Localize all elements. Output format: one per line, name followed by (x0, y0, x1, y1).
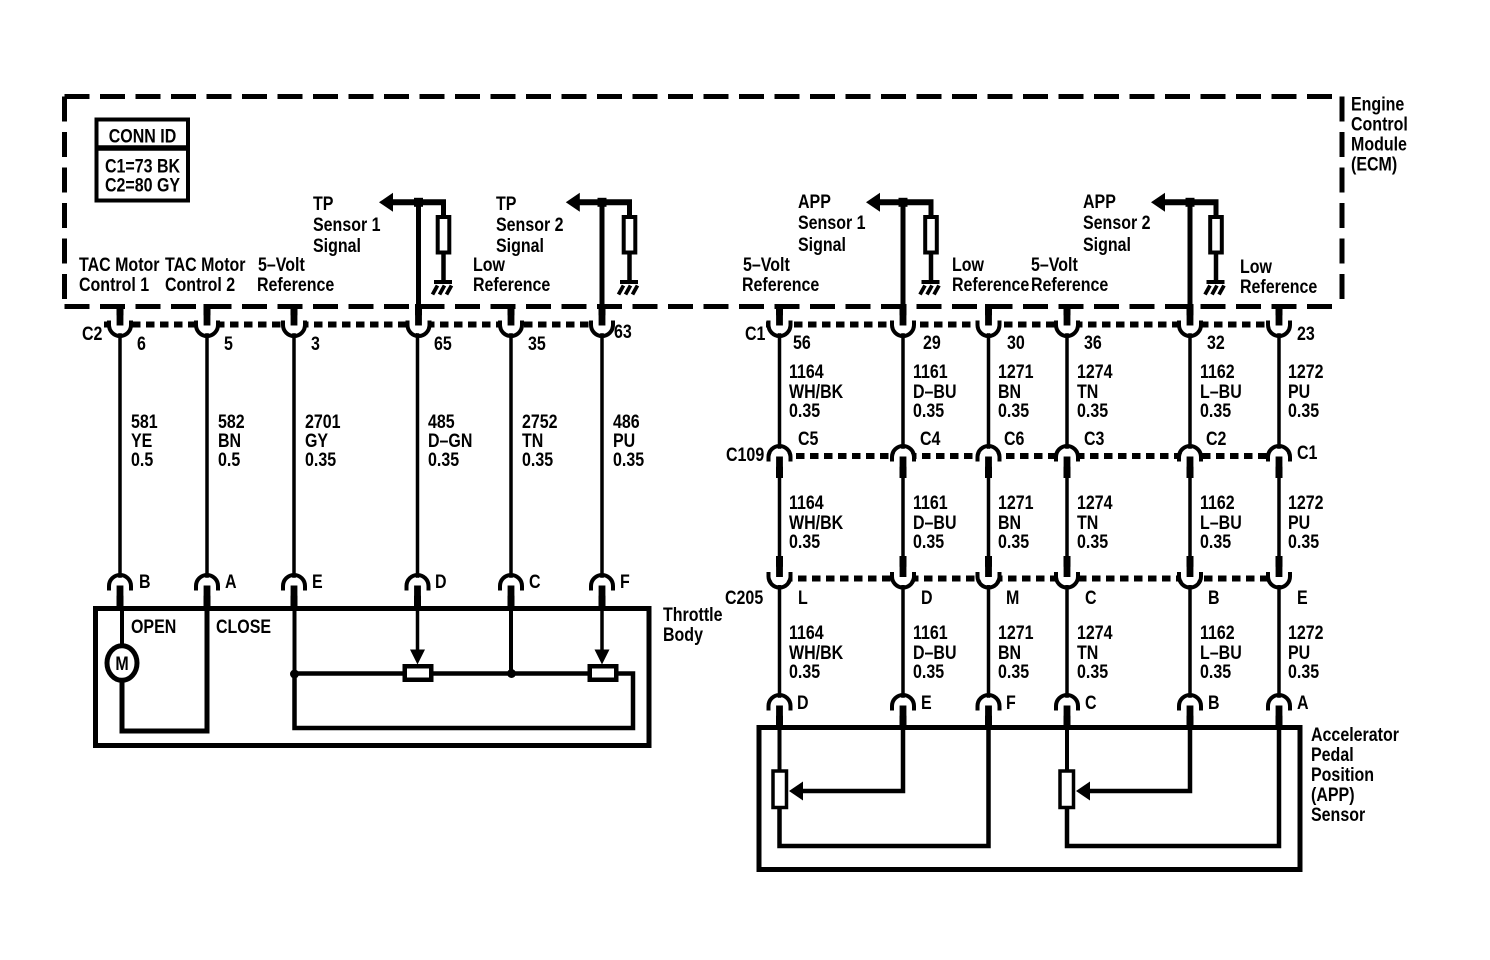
stub into throttle body pin A (204, 586, 211, 610)
connector throttle body pin E (283, 575, 305, 599)
connector C2 pin 6 (109, 312, 131, 336)
APP sensor box (759, 728, 1300, 870)
stub above C205 (900, 556, 907, 578)
svg-text:C6: C6 (1004, 428, 1025, 450)
stub into APP pin C (1064, 706, 1071, 729)
svg-text:Control 2: Control 2 (165, 274, 235, 296)
ECM pin stub C2-5 (204, 304, 211, 325)
value 1274 TN 0.35 (c) (1077, 622, 1113, 683)
junction TP1 (414, 198, 423, 207)
connector C109 pin C3 (1056, 446, 1078, 470)
svg-text:(ECM): (ECM) (1351, 153, 1397, 175)
value 582 BN 0.5 (218, 411, 245, 471)
stub above C205 (985, 556, 992, 578)
connector C1 pin 29 (892, 312, 914, 336)
CONN ID table (97, 120, 189, 201)
label Engine Control Module (ECM) (1351, 93, 1408, 175)
label Accelerator Pedal Position (APP) Sensor (1311, 724, 1399, 826)
wire 1271 segment b (C109 to C205-M) (987, 474, 991, 558)
connector C205 pin D (892, 564, 914, 588)
wire pin 65 vertical (416, 202, 421, 306)
svg-text:1162: 1162 (1200, 492, 1235, 514)
ECM module dashed box (65, 97, 1343, 307)
svg-text:0.35: 0.35 (913, 400, 944, 422)
stub into throttle body pin E (291, 586, 298, 610)
value 1271 BN 0.35 (a) (998, 361, 1034, 422)
svg-text:Signal: Signal (798, 234, 846, 256)
svg-text:36: 36 (1084, 332, 1102, 354)
connector C1 pin 30 (978, 312, 1000, 336)
value 1164 WH/BK 0.35 (a) (789, 361, 843, 422)
value 1272 PU 0.35 (b) (1288, 492, 1324, 553)
svg-text:1164: 1164 (789, 361, 824, 383)
svg-text:Reference: Reference (1031, 274, 1108, 296)
svg-text:Body: Body (663, 624, 703, 646)
svg-text:1274: 1274 (1077, 361, 1113, 383)
svg-text:Sensor 1: Sensor 1 (798, 212, 866, 234)
svg-text:1272: 1272 (1288, 492, 1324, 514)
svg-text:C1: C1 (745, 323, 766, 345)
svg-text:Reference: Reference (952, 274, 1029, 296)
wire 582 BN (C2-5 to throttle A) (205, 333, 209, 578)
label TAC Motor Control 2 (165, 254, 246, 296)
svg-text:1274: 1274 (1077, 622, 1113, 644)
wire 1164 segment b (C109 to C205-L) (778, 474, 782, 558)
wire E into pot element (293, 609, 297, 678)
svg-text:1274: 1274 (1077, 492, 1113, 514)
svg-text:Module: Module (1351, 133, 1407, 155)
svg-text:Signal: Signal (313, 235, 361, 257)
connector C109 pin C2 (1179, 446, 1201, 470)
svg-text:1161: 1161 (913, 492, 948, 514)
stub above C205 (1187, 556, 1194, 578)
svg-text:C2=80 GY: C2=80 GY (105, 174, 180, 196)
wire 1271 segment a (C1-30 to C109-C6) (987, 333, 991, 450)
svg-text:F: F (1006, 692, 1016, 714)
label Low Reference (APP1) (952, 254, 1029, 296)
svg-text:0.35: 0.35 (998, 531, 1029, 553)
svg-text:56: 56 (793, 332, 811, 354)
svg-text:0.35: 0.35 (1288, 661, 1319, 683)
svg-text:C: C (1085, 587, 1097, 609)
wire 1161 segment a (C1-29 to C109-C4) (901, 333, 905, 450)
value 1164 WH/BK 0.35 (c) (789, 622, 843, 683)
wiper arrow F (600, 609, 604, 650)
svg-text:0.35: 0.35 (789, 400, 820, 422)
wire motor to A (return) (122, 609, 207, 731)
connector APP pin C (1056, 695, 1078, 719)
wire APP sensor 2 signal arrow (1151, 193, 1165, 212)
stub into throttle body pin D (414, 586, 421, 610)
svg-text:C1: C1 (1297, 442, 1318, 464)
svg-text:E: E (921, 692, 932, 714)
stub into throttle body pin F (599, 586, 606, 610)
connector throttle body pin A (196, 575, 218, 599)
wire 1164 segment a (C1-56 to C109-C5) (778, 333, 782, 450)
label 5-Volt Reference (APP2) (1031, 254, 1108, 296)
wire 1274 segment a (C1-36 to C109-C3) (1065, 333, 1069, 450)
value 1274 TN 0.35 (b) (1077, 492, 1113, 553)
connector C109 pin C1 (1268, 446, 1290, 470)
wire 1272 segment a (C1-23 to C109-C1) (1277, 333, 1281, 450)
value 2752 TN 0.35 (522, 411, 558, 471)
svg-text:Sensor 2: Sensor 2 (1083, 212, 1151, 234)
svg-text:1164: 1164 (789, 492, 824, 514)
wire 1162 segment b (C109 to C205-B) (1188, 474, 1192, 558)
svg-text:C3: C3 (1084, 428, 1105, 450)
svg-text:Low: Low (952, 254, 984, 276)
connector APP pin A (1268, 695, 1290, 719)
svg-text:Position: Position (1311, 764, 1374, 786)
connector C205 pin E (1268, 564, 1290, 588)
stub below C109 (985, 457, 992, 478)
svg-text:63: 63 (614, 321, 632, 343)
TP sensor 1 element (405, 666, 432, 680)
junction APP2 (1186, 198, 1195, 207)
svg-text:TP: TP (496, 193, 517, 215)
resistor TP1 pull-up (441, 200, 446, 217)
svg-text:Signal: Signal (1083, 234, 1131, 256)
wire pot1 bottom loop to F (780, 728, 989, 846)
ECM pin stub C1-56 (776, 304, 783, 325)
wire 1162 segment c (C205 to APP B) (1188, 585, 1192, 699)
svg-text:A: A (225, 571, 237, 593)
stub below C109 (776, 457, 783, 478)
stub into APP pin B (1187, 706, 1194, 729)
svg-text:Low: Low (1240, 256, 1272, 278)
svg-text:1161: 1161 (913, 361, 948, 383)
wire D to pot1 top (778, 728, 782, 770)
connector body line C205 (dotted) (770, 576, 1291, 582)
svg-text:B: B (139, 571, 151, 593)
svg-text:5–Volt: 5–Volt (743, 254, 790, 276)
stub into APP pin F (985, 706, 992, 729)
connector APP pin B (1179, 695, 1201, 719)
wire 581 YE (C2-6 to throttle B) (118, 333, 122, 578)
svg-text:D: D (921, 587, 933, 609)
svg-text:1164: 1164 (789, 622, 824, 644)
svg-text:Throttle: Throttle (663, 604, 723, 626)
value 1161 D-BU 0.35 (c) (913, 622, 957, 683)
svg-text:C: C (1085, 692, 1097, 714)
stub below C109 (1064, 457, 1071, 478)
svg-text:C: C (529, 571, 541, 593)
svg-text:CLOSE: CLOSE (216, 616, 271, 638)
connector C109 pin C4 (892, 446, 914, 470)
svg-text:CONN ID: CONN ID (109, 125, 177, 147)
stub into APP pin A (1276, 706, 1283, 729)
svg-text:TAC Motor: TAC Motor (165, 254, 246, 276)
svg-text:6: 6 (137, 333, 146, 355)
svg-text:Control: Control (1351, 113, 1408, 135)
stub above C205 (776, 556, 783, 578)
svg-text:0.35: 0.35 (789, 531, 820, 553)
connector C205 pin B (1179, 564, 1201, 588)
wire B to motor (120, 609, 124, 646)
TP sensor 2 element (590, 666, 617, 680)
label TAC Motor Control 1 (79, 254, 160, 296)
label Low Reference (APP2) (1240, 256, 1317, 298)
svg-text:1272: 1272 (1288, 361, 1324, 383)
value 1162 L-BU 0.35 (b) (1200, 492, 1242, 553)
wire 486 PU (C2-63 to throttle F) (600, 333, 604, 578)
svg-text:C4: C4 (920, 428, 941, 450)
svg-text:OPEN: OPEN (131, 616, 176, 638)
svg-text:APP: APP (1083, 191, 1116, 213)
svg-text:C109: C109 (726, 444, 764, 466)
wire 1274 segment c (C205 to APP C) (1065, 585, 1069, 699)
wire C down (509, 609, 513, 673)
wiper APP2 (wire B) (1090, 728, 1190, 791)
svg-text:0.35: 0.35 (1288, 400, 1319, 422)
label 5-Volt Reference (TB) (257, 254, 334, 296)
svg-text:29: 29 (923, 332, 941, 354)
value 2701 GY 0.35 (305, 411, 341, 471)
svg-text:TP: TP (313, 193, 334, 215)
value 1272 PU 0.35 (c) (1288, 622, 1324, 683)
svg-text:0.35: 0.35 (1200, 531, 1231, 553)
svg-text:E: E (1297, 587, 1308, 609)
connector APP pin E (892, 695, 914, 719)
svg-text:Reference: Reference (1240, 276, 1317, 298)
svg-text:1161: 1161 (913, 622, 948, 644)
wire pin 29 vertical (901, 202, 906, 306)
junction C node (507, 669, 516, 678)
svg-text:3: 3 (311, 333, 320, 355)
svg-text:C5: C5 (798, 428, 819, 450)
svg-text:1272: 1272 (1288, 622, 1324, 644)
ground TP2 (619, 280, 639, 295)
svg-text:B: B (1208, 692, 1220, 714)
connector APP pin F (978, 695, 1000, 719)
APP sensor 1 element (773, 771, 787, 808)
APP sensor 2 element (1060, 771, 1074, 808)
connector C2 pin 3 (283, 312, 305, 336)
junction APP1 (899, 198, 908, 207)
wire 1271 segment c (C205 to APP F) (987, 585, 991, 699)
svg-text:Reference: Reference (473, 274, 550, 296)
svg-text:5–Volt: 5–Volt (1031, 254, 1078, 276)
label TP Sensor 2 Signal (496, 193, 564, 257)
svg-text:Low: Low (473, 254, 505, 276)
svg-text:Accelerator: Accelerator (1311, 724, 1399, 746)
svg-text:0.35: 0.35 (998, 400, 1029, 422)
ground APP1 (920, 280, 940, 295)
wire 2701 GY (C2-3 to throttle E) (292, 333, 296, 578)
svg-text:Reference: Reference (257, 274, 334, 296)
svg-text:30: 30 (1007, 332, 1025, 354)
svg-text:0.5: 0.5 (131, 449, 153, 471)
connector throttle body pin B (109, 575, 131, 599)
wire 1164 segment c (C205 to APP D) (778, 585, 782, 699)
label Low Reference (TB) (473, 254, 550, 296)
value 1271 BN 0.35 (c) (998, 622, 1034, 683)
svg-text:Reference: Reference (742, 274, 819, 296)
svg-text:Sensor: Sensor (1311, 804, 1365, 826)
connector C109 pin C5 (769, 446, 791, 470)
connector C109 pin C6 (978, 446, 1000, 470)
svg-text:D: D (435, 571, 447, 593)
wire pin 63 vertical (600, 202, 605, 306)
pot element mid segment (433, 671, 589, 676)
svg-text:A: A (1297, 692, 1309, 714)
value 1161 D-BU 0.35 (b) (913, 492, 957, 553)
svg-text:23: 23 (1297, 323, 1315, 345)
svg-text:0.35: 0.35 (1288, 531, 1319, 553)
connector body line C109 (dotted) (768, 453, 1291, 459)
ECM pin stub C1-30 (985, 304, 992, 325)
stub into throttle body pin B (117, 586, 124, 610)
svg-text:0.35: 0.35 (998, 661, 1029, 683)
svg-text:C205: C205 (725, 587, 763, 609)
ECM pin stub C2-6 (117, 304, 124, 325)
connector throttle body pin F (591, 575, 613, 599)
svg-text:0.35: 0.35 (1077, 400, 1108, 422)
wire 1274 segment b (C109 to C205-C) (1065, 474, 1069, 558)
stub into APP pin E (900, 706, 907, 729)
ground TP1 (433, 280, 453, 295)
pot element right segment + loop back (295, 674, 634, 729)
svg-text:0.35: 0.35 (1077, 531, 1108, 553)
wire TP sensor 1 signal arrow (379, 193, 393, 212)
value 1164 WH/BK 0.35 (b) (789, 492, 843, 553)
svg-text:D: D (797, 692, 809, 714)
connector C1 pin 56 (769, 312, 791, 336)
svg-text:0.35: 0.35 (305, 449, 336, 471)
value 1162 L-BU 0.35 (c) (1200, 622, 1242, 683)
svg-text:0.35: 0.35 (428, 449, 459, 471)
svg-text:B: B (1208, 587, 1220, 609)
svg-text:1271: 1271 (998, 361, 1034, 383)
wiper APP1 (wire E) (803, 728, 903, 791)
value 486 PU 0.35 (613, 411, 644, 471)
ECM pin stub C2-35 (508, 304, 515, 325)
value 1161 D-BU 0.35 (a) (913, 361, 957, 422)
connector C2 pin 35 (500, 312, 522, 336)
svg-text:L: L (798, 587, 808, 609)
svg-text:0.5: 0.5 (218, 449, 240, 471)
wire 1272 segment b (C109 to C205-E) (1277, 474, 1281, 558)
svg-text:65: 65 (434, 333, 452, 355)
value 1162 L-BU 0.35 (a) (1200, 361, 1242, 422)
value 1271 BN 0.35 (b) (998, 492, 1034, 553)
svg-text:5: 5 (224, 333, 233, 355)
svg-text:M: M (1006, 587, 1019, 609)
stub above C205 (1064, 556, 1071, 578)
pot element left segment (295, 671, 406, 676)
svg-text:(APP): (APP) (1311, 784, 1355, 806)
ECM pin stub C1-23 (1276, 304, 1283, 325)
wire 1272 segment c (C205 to APP A) (1277, 585, 1281, 699)
label APP Sensor 1 Signal (798, 191, 866, 256)
svg-text:0.35: 0.35 (789, 661, 820, 683)
svg-text:1271: 1271 (998, 492, 1034, 514)
wire C to pot2 top (1065, 728, 1069, 770)
resistor TP2 pull-up (627, 200, 632, 217)
connector C1 pin 36 (1056, 312, 1078, 336)
stub below C109 (1187, 457, 1194, 478)
stub into throttle body pin C (508, 586, 515, 610)
connector body line C1 (dotted) (766, 322, 1291, 328)
value 1274 TN 0.35 (a) (1077, 361, 1113, 422)
svg-text:M: M (115, 653, 128, 675)
label TP Sensor 1 Signal (313, 193, 381, 257)
connector C2 pin 65 (408, 312, 430, 336)
svg-text:Engine: Engine (1351, 93, 1404, 115)
connector throttle body pin D (407, 575, 429, 599)
wire pot2 bottom loop to A (1067, 728, 1279, 846)
connector throttle body pin C (500, 575, 522, 599)
stub below C109 (1276, 457, 1283, 478)
svg-text:E: E (312, 571, 323, 593)
connector C205 pin C (1056, 564, 1078, 588)
svg-text:Signal: Signal (496, 235, 544, 257)
svg-text:1271: 1271 (998, 622, 1034, 644)
svg-text:35: 35 (528, 333, 546, 355)
svg-text:Pedal: Pedal (1311, 744, 1354, 766)
connector body line C2 (dotted) (104, 322, 613, 328)
svg-text:1162: 1162 (1200, 361, 1235, 383)
svg-text:32: 32 (1207, 332, 1225, 354)
svg-text:Sensor 1: Sensor 1 (313, 214, 381, 236)
svg-text:0.35: 0.35 (522, 449, 553, 471)
ground APP2 (1205, 280, 1225, 295)
TAC motor M (107, 646, 137, 681)
svg-text:TAC Motor: TAC Motor (79, 254, 160, 276)
wire 2752 TN (C2-35 to throttle C) (509, 333, 513, 578)
connector C1 pin 23 (1268, 312, 1290, 336)
junction E node (290, 670, 299, 679)
svg-text:F: F (620, 571, 630, 593)
wire 1161 segment b (C109 to C205-D) (901, 474, 905, 558)
stub into APP pin D (776, 706, 783, 729)
wire 1162 segment a (C1-32 to C109-C2) (1188, 333, 1192, 450)
svg-text:C2: C2 (82, 323, 103, 345)
svg-text:0.35: 0.35 (1077, 661, 1108, 683)
svg-text:0.35: 0.35 (913, 531, 944, 553)
label 5-Volt Reference (APP1) (742, 254, 819, 296)
svg-text:1162: 1162 (1200, 622, 1235, 644)
value 581 YE 0.5 (131, 411, 158, 471)
stub above C205 (1276, 556, 1283, 578)
wire 485 D-GN (C2-65 to throttle D) (416, 333, 420, 578)
svg-text:0.35: 0.35 (913, 661, 944, 683)
wire TP sensor 2 signal arrow (566, 193, 580, 212)
wire 1161 segment c (C205 to APP E) (901, 585, 905, 699)
svg-text:APP: APP (798, 191, 831, 213)
connector C2 pin 5 (196, 312, 218, 336)
ECM pin stub C2-3 (291, 304, 298, 325)
connector C205 pin L (769, 564, 791, 588)
wire APP sensor 1 signal arrow (866, 193, 880, 212)
ECM pin stub C1-36 (1064, 304, 1071, 325)
connector C1 pin 32 (1179, 312, 1201, 336)
svg-text:Sensor 2: Sensor 2 (496, 214, 564, 236)
svg-text:0.35: 0.35 (1200, 661, 1231, 683)
connector APP pin D (769, 695, 791, 719)
svg-text:5–Volt: 5–Volt (258, 254, 305, 276)
value 485 D-GN 0.35 (428, 411, 472, 471)
connector C2 pin 63 (591, 312, 613, 336)
stub below C109 (900, 457, 907, 478)
throttle body box (96, 609, 650, 746)
connector C205 pin M (978, 564, 1000, 588)
resistor APP2 pull-up (1214, 200, 1219, 217)
wiper arrow D (416, 609, 420, 650)
svg-text:0.35: 0.35 (1200, 400, 1231, 422)
resistor APP1 pull-up (929, 200, 934, 217)
value 1272 PU 0.35 (a) (1288, 361, 1324, 422)
